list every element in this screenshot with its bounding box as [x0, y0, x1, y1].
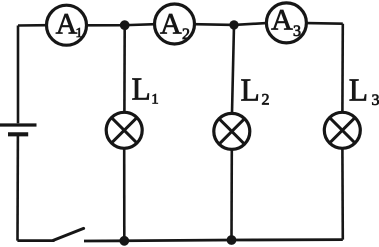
ammeter A2 [155, 4, 195, 44]
node junction dot 2 (top) [229, 20, 238, 29]
svg-text:2: 2 [182, 26, 190, 43]
wire branch L1 vertical upper [123, 25, 126, 112]
lamp L3 [324, 73, 379, 149]
svg-text:3: 3 [372, 92, 379, 109]
node junction dot 1 (top) [120, 20, 130, 30]
svg-text:A: A [56, 8, 78, 41]
wire top-left segment [18, 24, 47, 27]
svg-text:1: 1 [151, 92, 158, 108]
svg-text:L: L [349, 73, 368, 108]
svg-text:A: A [160, 7, 182, 40]
svg-text:2: 2 [262, 92, 270, 109]
wire bottom left stub [17, 239, 54, 242]
battery B (cell) [0, 125, 37, 134]
wire A3 to top-right corner [307, 22, 343, 25]
ammeter A1 [47, 5, 87, 45]
node junction dot 4 (bottom, branch L1) [119, 236, 129, 246]
wire right vertical upper [341, 24, 344, 113]
wire A2 to A3 [195, 23, 267, 25]
node junction dot 3 (bottom, branch L2) [227, 235, 237, 245]
ammeter A3 [266, 3, 306, 43]
wire branch L2 vertical lower [230, 150, 233, 240]
wire right vertical lower [341, 149, 344, 240]
svg-text:L: L [132, 72, 151, 107]
svg-text:A: A [271, 4, 293, 37]
wire left vertical upper [17, 26, 20, 124]
wire A1 to A2 [87, 24, 155, 25]
switch S (open blade) [53, 228, 83, 240]
wire bottom right to switch [84, 240, 343, 241]
lamp L1 [106, 72, 158, 149]
svg-text:3: 3 [293, 23, 301, 40]
wire branch L2 vertical upper [232, 25, 234, 113]
wire left vertical lower [16, 136, 19, 241]
svg-text:1: 1 [76, 26, 83, 41]
lamp L2 [214, 73, 270, 150]
wire branch L1 vertical lower [123, 149, 126, 241]
svg-text:L: L [241, 73, 260, 108]
